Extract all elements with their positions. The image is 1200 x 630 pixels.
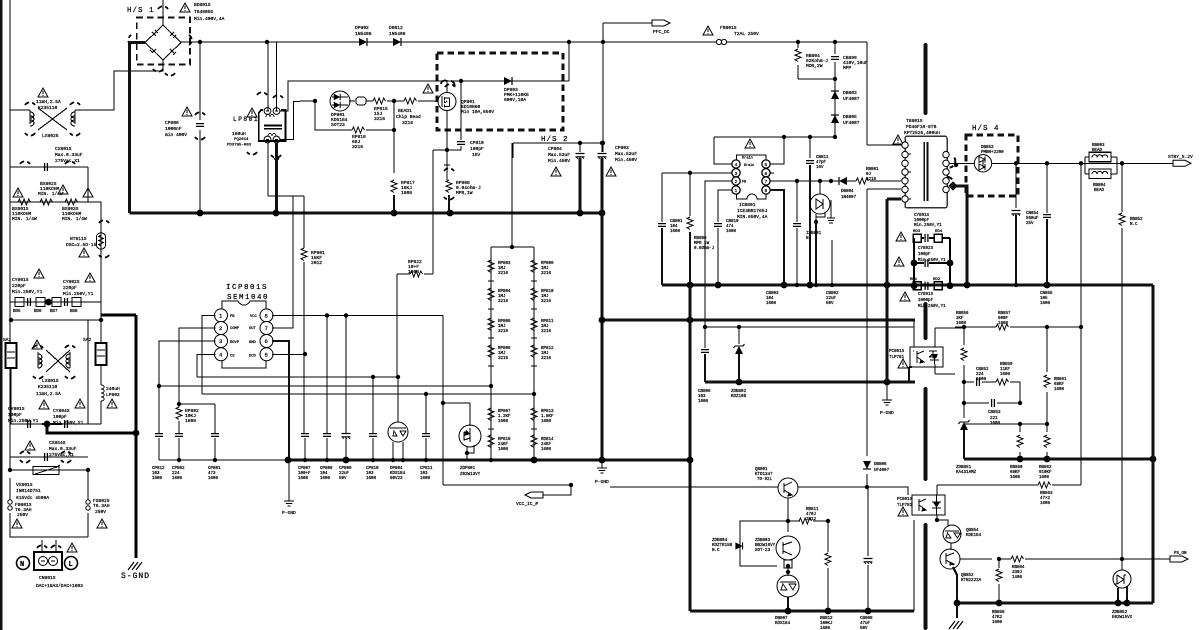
svg-text:DB803: DB803 [843,90,857,96]
svg-text:1MJ: 1MJ [498,295,506,299]
svg-text:H/S 4: H/S 4 [972,125,1000,133]
svg-text:1608: 1608 [976,378,987,382]
pin2 FB net down [705,181,732,327]
top wire y=42 with diodes DP802 D0812 [300,42,603,81]
bottom thick bus y=611 [690,610,914,613]
svg-text:Drain: Drain [744,163,754,168]
svg-text:PFC_DC: PFC_DC [653,29,670,35]
svg-text:KTD1347: KTD1347 [755,473,773,477]
svg-text:RD814: RD814 [541,438,554,442]
CB808 [867,487,869,611]
ZDP801 [459,425,481,447]
svg-text:RP811: RP811 [541,320,554,324]
svg-text:275Vac,X1: 275Vac,X1 [55,158,80,164]
svg-text:4: 4 [735,162,738,168]
QP801 source down [433,111,447,173]
svg-text:0.8Ohm-J: 0.8Ohm-J [694,246,715,251]
RP801 net from LP801 [303,196,305,433]
svg-text:K235110: K235110 [38,384,58,390]
svg-text:MPR,1W: MPR,1W [456,190,473,196]
net flag VCC_IC_# [525,492,543,498]
NT811S thermistor [97,233,106,249]
x=1081 vertical [1080,163,1082,485]
svg-text:PQ2614: PQ2614 [234,138,249,142]
P-GND under x=602 [601,460,603,465]
capacitor CP808 [323,434,331,437]
resistor RP802 [176,407,182,420]
capacitor CB853 [992,399,995,407]
diode DB806 [863,461,871,469]
bead RB803/RB804 [1079,161,1083,165]
RP822 path [397,172,433,377]
svg-text:CB801: CB801 [670,220,683,224]
capacitor CB810 [714,224,722,227]
svg-text:3KF: 3KF [956,317,964,321]
svg-text:PC801S: PC801S [889,350,905,354]
diode D0812 [393,38,401,46]
svg-text:1MJ: 1MJ [498,267,506,271]
svg-text:16V: 16V [816,166,824,170]
svg-text:Max.0.33uF: Max.0.33uF [49,446,77,452]
svg-text:DCD: DCD [249,355,257,359]
svg-text:P-GND: P-GND [595,479,609,485]
capacitor CP803 [598,154,607,159]
svg-text:RB858: RB858 [992,611,1005,615]
svg-text:1608: 1608 [726,230,737,234]
svg-text:910KF: 910KF [1039,471,1052,475]
svg-text:IZB801: IZB801 [806,232,822,236]
DB853 diode circle [974,155,991,172]
DB807 dual diode circle [777,575,799,597]
H/S2 dashed box [437,53,563,130]
CB802 [831,240,833,285]
wire y=487 QB801 [610,487,908,495]
svg-text:Min.250V,Y1: Min.250V,Y1 [63,291,94,297]
capacitor CB803 [793,224,801,227]
svg-text:ZDB804: ZDB804 [712,539,728,543]
svg-text:1.8KF: 1.8KF [541,415,554,419]
IC socket [737,155,767,199]
svg-text:Min 10A,650V: Min 10A,650V [461,109,494,115]
zener ZDB802 [734,344,745,354]
svg-text:RP818: RP818 [498,438,511,442]
svg-text:UF4007: UF4007 [874,469,890,473]
CX854S row [25,441,35,450]
svg-text:Min.450V: Min.450V [615,157,637,163]
LP802 inductor [101,385,104,424]
svg-text:1608: 1608 [670,230,681,234]
svg-text:221: 221 [990,417,998,421]
svg-text:ICB801: ICB801 [739,202,756,208]
svg-text:CS: CS [230,355,235,359]
resistor RB858 [996,569,1002,582]
net flag STBY_5.2V [1173,160,1191,166]
svg-text:22uF: 22uF [339,472,350,476]
QB854 [943,525,961,543]
svg-text:CY802S: CY802S [63,279,80,285]
svg-text:5: 5 [265,351,268,358]
svg-text:RB856: RB856 [956,312,969,316]
capacitor CP804 [576,154,585,159]
VX801S varistor [10,469,88,471]
svg-text:DP804: DP804 [390,467,403,471]
P-GND below pin6 rail [288,460,290,498]
svg-text:3216: 3216 [498,272,509,276]
svg-text:3216: 3216 [374,116,385,122]
resistor RB859 [996,379,1009,385]
section box edge to S-GND [101,314,136,317]
net flag PS_ON [1170,556,1188,562]
cap row y=424 [10,423,101,425]
svg-text:CP802: CP802 [172,467,185,471]
capacitor CP811 [422,434,430,437]
transformer body [905,136,947,208]
RP808 vertical with arcs [444,158,450,180]
svg-text:3216: 3216 [541,330,552,334]
wire left rail [10,0,88,537]
svg-text:RP806: RP806 [498,347,511,351]
resistor RP822 [410,271,423,277]
gate line y=101 [300,100,437,102]
svg-text:1MJ: 1MJ [498,352,506,356]
resistor RB812 [825,553,831,566]
svg-text:CP812: CP812 [152,467,165,471]
svg-text:D0812: D0812 [389,25,403,31]
svg-text:224: 224 [976,373,984,377]
IC socket outline [222,301,266,368]
svg-text:103: 103 [366,472,374,476]
svg-text:CB803: CB803 [766,292,779,296]
svg-text:CP806: CP806 [165,120,179,126]
RB863 wire y=485 [937,459,1081,495]
svg-text:S-GND: S-GND [121,572,150,581]
svg-text:103: 103 [152,472,160,476]
svg-text:RB861: RB861 [1054,378,1067,382]
net flag PFC_DC [652,20,670,26]
svg-text:RP812: RP812 [541,347,554,351]
x=887 thick + P-GND [886,199,889,382]
svg-text:KDE184: KDE184 [966,534,982,538]
svg-text:1000pF: 1000pF [914,219,930,223]
svg-text:RB803: RB803 [1092,144,1105,148]
svg-text:VCC_IC_#: VCC_IC_# [516,501,538,507]
svg-text:CB853: CB853 [988,411,1001,415]
capacitor between beads BD5/BD6 [28,298,31,306]
svg-text:ZDB802: ZDB802 [731,390,747,394]
LP801 right pin wires [268,81,304,196]
svg-text:1MJ: 1MJ [541,352,549,356]
svg-text:Min.250V,Y1: Min.250V,Y1 [918,304,946,309]
opto1 PC801S [910,347,943,367]
thick rails [601,213,604,460]
capacitor CX801S [45,163,48,171]
svg-text:3216: 3216 [498,330,509,334]
svg-text:Drain: Drain [742,156,753,161]
svg-text:47uF: 47uF [860,622,871,626]
svg-text:CX854S: CX854S [49,440,66,446]
svg-text:FR801S: FR801S [720,25,737,31]
svg-text:CY891S: CY891S [914,214,930,218]
capacitor CB806 [701,350,709,353]
svg-text:GND: GND [249,341,257,345]
svg-text:CP810: CP810 [470,140,484,146]
svg-text:CN854: CN854 [1026,212,1039,216]
secondary pins [943,151,949,157]
main thick bus y=213 [130,212,604,215]
svg-text:47×2: 47×2 [1040,496,1051,501]
svg-text:1408: 1408 [1012,576,1023,580]
ground S-GND [128,562,142,570]
svg-text:103: 103 [698,395,706,399]
svg-text:104: 104 [320,472,328,476]
RB812 [827,521,829,611]
svg-text:470J: 470J [806,513,817,517]
svg-text:DB807: DB807 [775,617,788,621]
svg-text:250V: 250V [17,512,28,518]
capacitor CP812 [155,434,163,437]
svg-text:Z02W13VY: Z02W13VY [460,473,481,477]
svg-text:RP813: RP813 [541,410,554,414]
wire y=42 with fuse FR801S [600,42,903,145]
svg-text:22uF: 22uF [826,297,837,301]
svg-text:VCC: VCC [250,315,258,319]
svg-text:473: 473 [208,472,216,476]
ground P-GND (control) [284,498,294,506]
ground P-GND (primary) [882,397,892,405]
svg-text:T64805G: T64805G [194,9,214,15]
svg-text:1KV: 1KV [472,152,481,158]
svg-text:min 400V: min 400V [165,132,187,138]
svg-text:1N4007: 1N4007 [841,196,857,200]
svg-text:BD801S: BD801S [194,2,211,8]
resistor RP815 [373,98,386,104]
svg-text:3216: 3216 [541,300,552,304]
CP806 cap [199,42,201,213]
svg-text:COMP: COMP [230,327,240,331]
svg-text:50V: 50V [339,477,347,481]
svg-text:3: 3 [735,171,738,177]
svg-text:1608: 1608 [420,477,431,481]
ZDB852 [1121,559,1123,570]
diode DP802 [359,38,367,46]
svg-text:DB806: DB806 [874,463,887,467]
thick wire pin bottom-left to gnd bus [887,199,901,285]
svg-text:1N5408: 1N5408 [355,31,372,37]
svg-text:1MJ: 1MJ [498,325,506,329]
RB804 + CB899 parallel [798,42,835,137]
wire row y=320 [10,315,101,343]
svg-text:ZDB851: ZDB851 [956,466,972,470]
diode DB804 [839,177,847,185]
svg-text:1.2KF: 1.2KF [498,415,511,419]
svg-text:Min.250V,Y1: Min.250V,Y1 [8,418,39,424]
svg-text:105: 105 [1040,297,1048,301]
svg-text:E02W15VX: E02W15VX [1112,616,1133,620]
svg-text:600F: 600F [998,317,1009,321]
svg-text:N: N [20,561,24,569]
svg-text:100+F: 100+F [298,472,311,476]
svg-text:1608: 1608 [1040,302,1051,306]
svg-text:H/S 1: H/S 1 [127,7,155,15]
svg-text:ZDB852: ZDB852 [1112,611,1128,615]
opto1 wires [909,367,912,382]
ground P-GND (bulk) [597,465,607,473]
resistor RB801 [856,178,869,184]
y=424 wire [964,423,1047,425]
svg-text:RP809: RP809 [541,262,554,266]
svg-text:CP809: CP809 [339,467,352,471]
svg-text:RP804: RP804 [498,290,511,294]
svg-text:24KF: 24KF [498,443,509,447]
diode DB805 [831,115,839,123]
svg-text:103: 103 [420,472,428,476]
svg-text:1608: 1608 [766,302,777,306]
svg-text:PC801S: PC801S [897,498,913,502]
svg-text:RB811: RB811 [806,508,819,512]
svg-text:0J: 0J [866,173,872,177]
x=1153 thick [1152,285,1155,603]
capacitor CP809 [342,434,351,439]
svg-text:CB852: CB852 [976,368,989,372]
svg-text:220pF: 220pF [12,283,26,289]
svg-text:PD3795-003: PD3795-003 [227,144,252,148]
svg-text:ICP801S: ICP801S [226,284,268,292]
CY801S / CY802S texts [34,269,44,278]
svg-text:1608: 1608 [1000,373,1011,377]
resistor RP801 [301,248,307,261]
RB858 [998,559,1000,603]
svg-text:1608: 1608 [992,621,1003,625]
SA2 [96,343,107,365]
thick primary gnd bus y=285 [662,284,1153,287]
capacitor CB899 [831,57,839,60]
RP816 row [315,101,394,173]
svg-text:1608: 1608 [698,400,709,404]
resistor BEAD1 [404,98,417,104]
svg-text:DSC=2.5D-15: DSC=2.5D-15 [66,242,97,248]
svg-text:220pF: 220pF [63,285,77,291]
svg-text:CP803: CP803 [615,145,629,151]
resistor RB852 [1119,213,1125,226]
capacitor CP801 [211,434,219,437]
svg-text:330J: 330J [1012,571,1023,575]
capacitor CN855 [1043,215,1051,218]
CN855 [1046,163,1048,213]
small box after DP801 [356,97,366,105]
svg-text:KPT2525,400uH: KPT2525,400uH [904,130,940,136]
svg-text:Max.53uF: Max.53uF [548,152,570,158]
svg-text:MIN. 1/4W: MIN. 1/4W [12,216,37,222]
svg-text:BEAD1: BEAD1 [398,108,412,114]
svg-text:SOT23: SOT23 [331,122,345,128]
svg-text:KTN2222A: KTN2222A [961,579,982,583]
resistor BX801S [18,199,31,205]
svg-text:Max.0.33uF: Max.0.33uF [55,152,83,158]
capacitor CP810b [369,434,377,437]
resistor RB811 [799,518,812,524]
resistor RB856 [961,348,967,361]
resistor RB857 [996,324,1009,330]
svg-text:1000nF: 1000nF [165,126,182,132]
bottom right thick bus y=603 [957,602,1153,605]
svg-text:T6.3AH: T6.3AH [93,503,110,509]
aux wire x=867 [867,189,901,487]
wire y=81 through box: coil + diode DP803 [300,80,569,82]
svg-text:KDS184: KDS184 [775,622,791,626]
CN854 [1015,163,1017,208]
svg-text:LP801: LP801 [233,116,259,123]
svg-text:6: 6 [265,338,268,345]
ground under QB852 [956,603,958,618]
shunt regulator ZDB851 [959,420,970,430]
capacitor CP807 [301,434,309,437]
CB852 + RB859 [964,382,1020,403]
svg-text:RB812: RB812 [820,617,833,621]
svg-text:RB862: RB862 [1039,466,1052,470]
wire top row to bridge [10,66,163,110]
thin bus y=460 left part [159,459,288,461]
svg-text:104: 104 [766,297,774,301]
resistor BX802S [40,199,53,205]
svg-text:RB864: RB864 [1012,566,1025,570]
svg-text:240uH: 240uH [106,386,120,392]
svg-text:160uH: 160uH [232,131,246,137]
svg-text:QB852: QB852 [961,574,974,578]
bridge BD801S [114,0,181,71]
svg-text:UF4007: UF4007 [843,120,860,126]
CB853 row [964,382,1020,403]
svg-text:3216: 3216 [498,300,509,304]
svg-text:100pF: 100pF [8,412,22,418]
opto2 wires [937,515,948,527]
svg-text:CP807: CP807 [298,467,311,471]
svg-text:11KF: 11KF [1000,368,1011,372]
svg-text:P-GND: P-GND [880,410,894,416]
svg-text:T8801S: T8801S [906,118,923,124]
svg-text:1608: 1608 [408,269,419,275]
svg-text:600V,10A: 600V,10A [504,97,526,103]
svg-text:CB808: CB808 [860,617,873,621]
CB806 / ZDB802 on y=382 [704,327,706,348]
svg-text:24KF: 24KF [541,443,552,447]
svg-text:1N5408: 1N5408 [389,31,406,37]
LP801 inductor [268,42,277,111]
svg-text:3216: 3216 [866,178,877,182]
capacitor CB852 [977,378,980,386]
capacitor CY804S [65,420,68,428]
capacitor CB808 [864,559,873,564]
svg-text:2012: 2012 [311,260,322,266]
border frame left [0,0,3,630]
svg-text:1608: 1608 [498,448,509,452]
IZB801 [810,194,830,214]
svg-text:RB857: RB857 [998,312,1011,316]
svg-text:T2AL 250V: T2AL 250V [734,31,759,37]
horizontal nets [159,377,534,403]
RB852 [1121,163,1123,560]
wire CX row [10,167,101,315]
svg-text:3: 3 [219,338,222,345]
svg-text:KDZ18B: KDZ18B [731,395,747,399]
capacitor CP810 [457,142,465,145]
RB861 [1046,327,1048,424]
svg-text:N.C: N.C [712,549,720,553]
svg-text:1: 1 [735,188,738,194]
svg-text:1608: 1608 [1010,476,1021,480]
SA1 [6,343,17,368]
svg-text:1MJ: 1MJ [541,295,549,299]
thick bus y=460 [288,459,690,462]
